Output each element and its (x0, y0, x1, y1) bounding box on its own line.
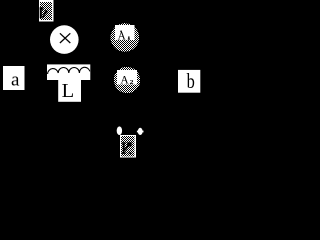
svg-text:b: b (187, 70, 195, 93)
terminal a (3, 66, 25, 90)
svg-text:a: a (11, 69, 20, 90)
battery terminal dot right (137, 128, 144, 135)
battery lever mark (121, 142, 131, 154)
inductor label box L (58, 80, 81, 103)
svg-text:2: 2 (130, 79, 135, 86)
terminal b (178, 70, 200, 93)
battery body (checkered box) (120, 135, 136, 158)
svg-text:A: A (120, 75, 129, 87)
lamp (circle with x) (50, 25, 79, 54)
battery terminal dot left (117, 126, 122, 135)
switch S (checkered box top-left) (39, 0, 54, 22)
ammeter A1 (gray dithered circle) (111, 23, 140, 52)
switch S lever mark (40, 7, 48, 18)
svg-text:L: L (62, 80, 75, 102)
ammeter A2 (gray dithered circle) (114, 67, 140, 93)
inductor coil bar (47, 64, 90, 80)
svg-text:A: A (118, 31, 127, 43)
